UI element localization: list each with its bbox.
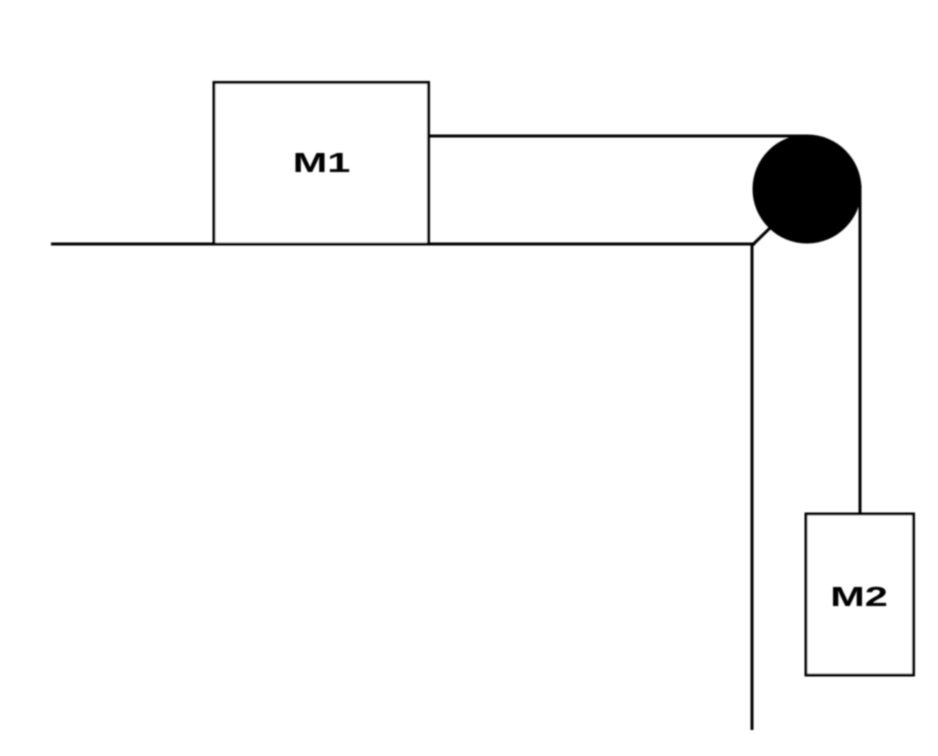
svg-text:M1: M1 xyxy=(293,147,351,178)
svg-text:M2: M2 xyxy=(830,581,888,612)
